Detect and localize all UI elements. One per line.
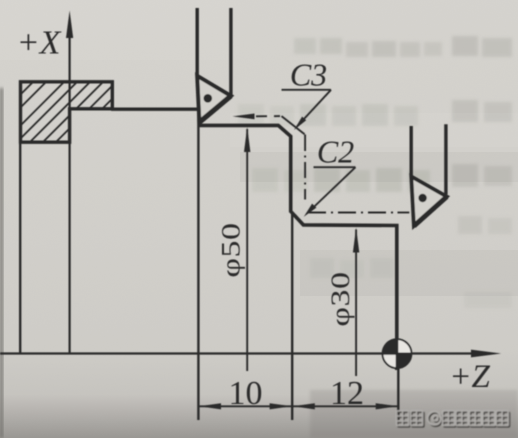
- svg-text:10: 10: [229, 375, 263, 412]
- svg-text:12: 12: [330, 375, 364, 412]
- svg-text:C2: C2: [317, 134, 354, 170]
- svg-text:+Z: +Z: [449, 359, 490, 395]
- svg-text:φ50: φ50: [216, 222, 246, 277]
- svg-text:φ30: φ30: [325, 271, 355, 326]
- svg-text:C3: C3: [290, 57, 327, 93]
- svg-text:+X: +X: [17, 25, 62, 62]
